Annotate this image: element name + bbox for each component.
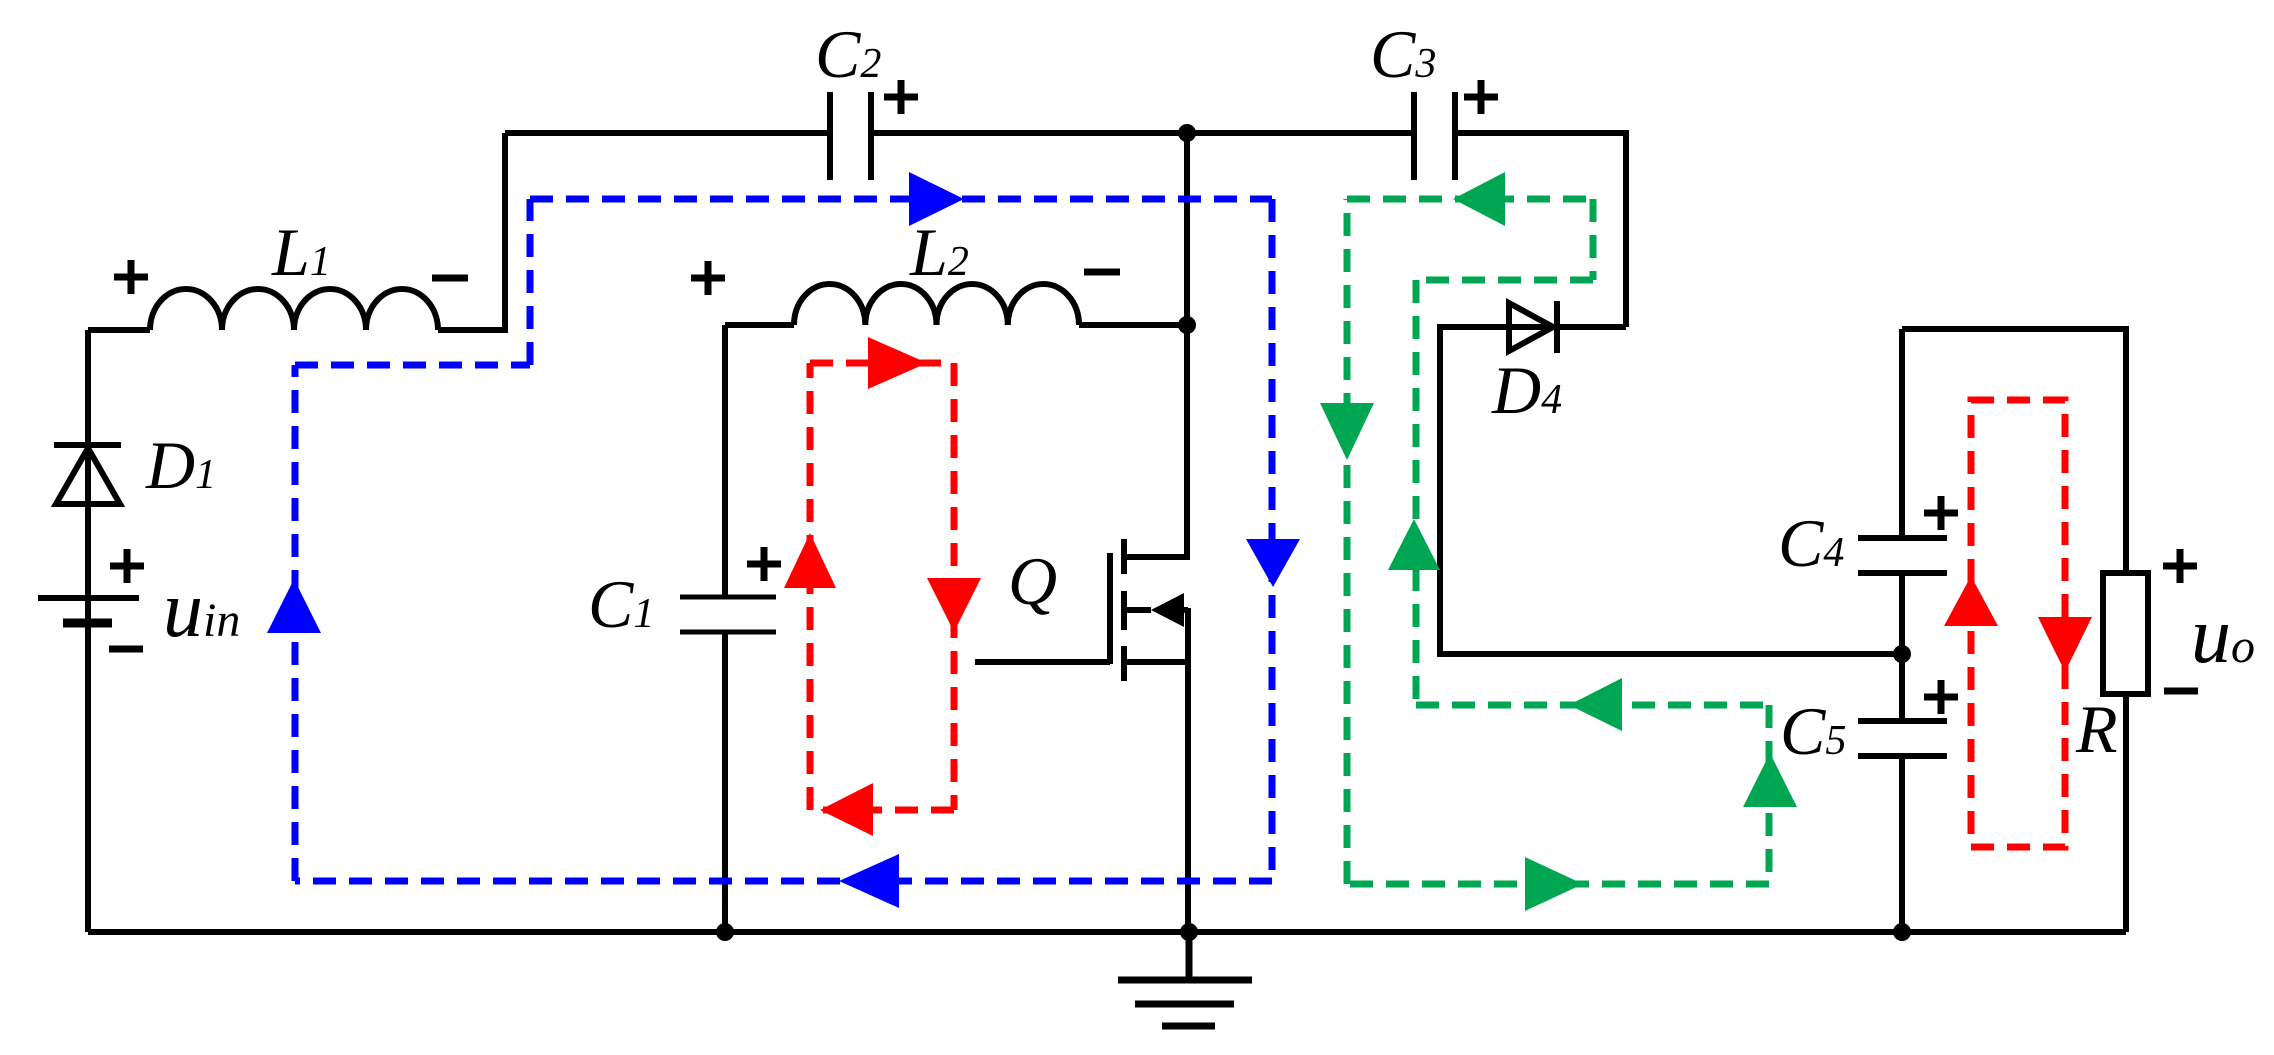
wire: D4 anode lead and drop to output node rail [1440, 327, 1902, 654]
blue dashed loop (switch-on input path) [295, 199, 1272, 881]
wire: gate lead [975, 659, 1110, 665]
minus L1 [432, 275, 468, 282]
svg-text:uin: uin [163, 566, 240, 654]
red arrow up (left of loop1) [784, 533, 836, 588]
transistor Q MOSFET [1107, 553, 1113, 664]
capacitor C2 [830, 92, 871, 180]
capacitor C4 [1858, 538, 1947, 573]
node B: L2 right / drain junction [1178, 316, 1196, 334]
plus uo [2163, 549, 2197, 583]
svg-text:D1: D1 [145, 427, 216, 503]
wire: blue left vertical [292, 365, 299, 881]
wire: top rail right of C3, down to D4 cathode [1455, 133, 1626, 327]
plus C5 [1924, 680, 1958, 714]
wire: red1 right vertical [951, 363, 958, 810]
inductor L2 [794, 284, 1079, 325]
red arrow down (right of loop1) [927, 578, 981, 632]
svg-text:C4: C4 [1778, 505, 1844, 581]
wire: red1 top [810, 360, 954, 367]
wire: green left long vertical [1344, 199, 1351, 884]
red dashed loop 1 (C1-L2) [810, 363, 954, 810]
svg-text:Q: Q [1008, 543, 1057, 619]
wire: blue right vertical [1269, 199, 1276, 881]
wire: top rail C2 to C3 [871, 130, 1414, 136]
wire: blue upper-left horizontal [295, 362, 530, 369]
plus C1 [747, 547, 781, 581]
red arrow down (right of loop2) [2038, 617, 2092, 672]
wire: left vertical from L1 down through D1 and uin to bottom rail [85, 330, 91, 932]
wire: L2 left lead down through C1 [725, 325, 794, 932]
svg-text:L1: L1 [271, 214, 331, 290]
node D: ground rail junction [1180, 923, 1198, 941]
plus L1 [114, 260, 148, 294]
green arrow up (mid vertical) [1388, 519, 1440, 570]
svg-text:C5: C5 [1780, 693, 1846, 769]
minus L2 [1084, 269, 1120, 276]
wire: red2 rectangle [1971, 400, 2065, 847]
red dashed loop 2 (C4-R) [1971, 400, 2065, 847]
node C: C1 bottom rail junction [716, 923, 734, 941]
capacitor C1 [680, 597, 776, 632]
wire: green bottom horizontal [1347, 881, 1769, 888]
wire: red1 bottom [810, 807, 954, 814]
plus uin [110, 549, 144, 583]
plus C2 [884, 80, 918, 114]
green arrow down (left vertical) [1320, 403, 1374, 460]
wire: center vertical / MOSFET drain [1124, 133, 1187, 557]
blue arrow up (left) [267, 579, 321, 633]
wire: blue upper-left vertical [527, 199, 534, 365]
battery uin plates [38, 595, 139, 601]
wire: L1 left lead [88, 327, 150, 333]
wire: bottom rail [88, 929, 2126, 935]
wire: green mid horizontal toward C5 [1416, 702, 1769, 709]
diode D4 [1509, 301, 1557, 353]
svg-text:D4: D4 [1491, 352, 1562, 428]
wire: L2 right lead [1079, 322, 1187, 328]
wire: green top horizontal under C3 [1347, 196, 1593, 203]
green arrow left (mid horizontal) [1569, 678, 1622, 731]
svg-text:R: R [2075, 691, 2118, 767]
blue arrow left (bottom) [839, 854, 899, 908]
svg-text:C1: C1 [588, 566, 654, 642]
plus / minus polarity marks [109, 80, 2198, 714]
capacitor C3 [1414, 92, 1455, 180]
red arrow right (top of loop1) [868, 337, 927, 389]
wire: green mid vertical [1413, 280, 1420, 705]
wire: green right vertical [1766, 705, 1773, 884]
node A: C2-C3 top rail junction [1178, 124, 1196, 142]
node E: C4-C5 midpoint [1893, 645, 1911, 663]
wire: red1 left vertical [807, 363, 814, 810]
green arrow right (bottom) [1525, 857, 1583, 911]
minus uin [109, 646, 143, 653]
diode D1 [54, 445, 121, 504]
minus uo [2164, 688, 2198, 695]
blue arrow down (right) [1246, 539, 1300, 587]
red arrow up (left of loop2) [1944, 576, 1998, 626]
plus C3 [1464, 80, 1498, 114]
wire: L1 right lead up to top rail [438, 133, 505, 330]
wire: top rail left of C2 [505, 130, 830, 136]
svg-text:C3: C3 [1370, 16, 1436, 92]
body arrow of MOSFET Q [1151, 593, 1184, 627]
wire: output loop top and right with load [1902, 329, 2126, 932]
resistor R [2103, 573, 2148, 694]
plus L2 [691, 261, 725, 295]
red arrow left (bottom of loop1) [820, 783, 873, 836]
green dashed loop (C3-C5 path) [1347, 199, 1769, 884]
plus C4 [1924, 496, 1958, 530]
capacitor C5 [1858, 721, 1947, 756]
wire: green jog horizontal [1416, 277, 1593, 284]
wire: blue bottom horizontal [295, 878, 1272, 885]
blue arrow right (top) [909, 172, 964, 226]
green arrow left (top) [1453, 172, 1505, 226]
wire: green right jog vertical [1590, 199, 1597, 280]
green arrow up (right vertical) [1743, 753, 1797, 807]
svg-text:uo: uo [2191, 592, 2255, 680]
ground [1118, 932, 1252, 1026]
wire: C4 branch top [1899, 329, 1905, 932]
node F: C5 bottom rail junction [1893, 923, 1911, 941]
svg-text:C2: C2 [815, 16, 881, 92]
wire: blue top horizontal [530, 196, 1272, 203]
svg-text:L2: L2 [909, 214, 969, 290]
inductor L1 [150, 289, 438, 330]
